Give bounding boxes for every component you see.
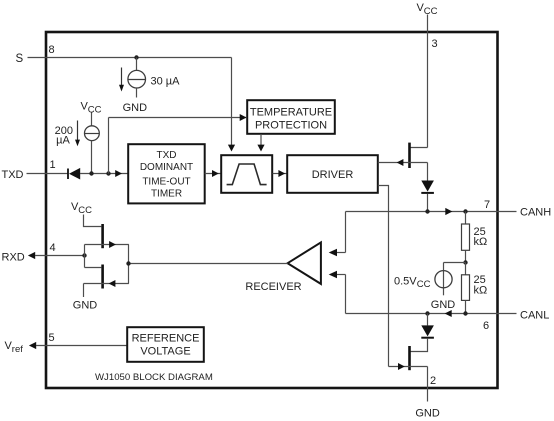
wire I2 to TXD net <box>91 141 93 174</box>
arrowhead on CANL line (pointing left) <box>445 310 452 317</box>
svg-text:CANL: CANL <box>520 309 549 321</box>
svg-text:CC: CC <box>78 205 92 216</box>
wire CANH to receiver riser <box>345 212 347 253</box>
resistor R2 25k <box>465 263 467 275</box>
svg-text:kΩ: kΩ <box>474 236 488 248</box>
wire CANL to receiver riser <box>345 275 347 314</box>
wire 30uA source stub top <box>136 58 138 71</box>
block slope control <box>221 155 272 193</box>
diode D2 (CANH) <box>421 181 434 192</box>
wire timer to slope block <box>205 173 221 175</box>
arrowhead on Q2 gate (pointing right) <box>398 363 405 370</box>
svg-text:DRIVER: DRIVER <box>312 169 354 181</box>
svg-text:PROTECTION: PROTECTION <box>255 120 327 132</box>
arrowhead into slope control block from S net <box>228 145 235 152</box>
wire receiver lower input <box>337 274 346 276</box>
arrowhead on Q4 (pointing left) <box>109 280 116 287</box>
arrowhead Vref (pointing left out of chip) <box>29 342 36 349</box>
svg-text:TXD: TXD <box>2 169 24 181</box>
transistor Q3 channel bar <box>101 224 104 248</box>
wire GND stub (RXD stage) <box>83 284 85 298</box>
node CANL/D3 <box>425 311 429 315</box>
arrowhead on Q1 gate (pointing left) <box>397 159 404 166</box>
svg-text:8: 8 <box>49 44 55 56</box>
node TXD/temp-net junction <box>106 171 110 175</box>
block driver <box>287 155 378 193</box>
arrowhead RXD (pointing left out of chip) <box>28 252 35 259</box>
wire diode to timer block <box>80 173 128 175</box>
arrowhead temp protection into slope block <box>257 145 264 152</box>
svg-text:0.5V: 0.5V <box>394 275 417 287</box>
svg-text:7: 7 <box>484 199 490 211</box>
wire Q3 gate line (crosses bar) <box>85 244 129 246</box>
arrowhead on Q3 (pointing right) <box>109 241 116 248</box>
svg-text:GND: GND <box>73 300 98 312</box>
svg-text:2: 2 <box>430 375 436 387</box>
svg-text:RECEIVER: RECEIVER <box>245 281 301 293</box>
current direction arrow for I1 <box>121 68 123 86</box>
wire VCC to I2 <box>91 113 93 127</box>
block reference voltage <box>127 327 204 362</box>
transistor Q4 channel bar <box>101 265 104 289</box>
svg-text:4: 4 <box>50 242 56 254</box>
diode D3 (CANL) <box>427 314 429 326</box>
resistor R1 25k <box>465 212 467 225</box>
wire CANL line <box>346 313 517 315</box>
wire RXD <box>35 255 85 257</box>
svg-text:CC: CC <box>417 279 431 290</box>
node CANH/R1 <box>463 209 467 213</box>
arrowhead into timer block <box>115 170 122 177</box>
arrowhead into slope block <box>212 170 219 177</box>
svg-text:RXD: RXD <box>2 251 25 263</box>
svg-text:CC: CC <box>424 6 438 17</box>
wire to temperature protection (horizontal) <box>109 117 247 119</box>
svg-text:CANH: CANH <box>520 206 551 218</box>
block temperature protection <box>247 100 335 134</box>
current source I2 200uA circle <box>85 126 100 141</box>
wire CANH line <box>346 211 517 213</box>
op-amp receiver triangle <box>288 242 321 284</box>
svg-text:6: 6 <box>483 320 489 332</box>
wire right vertical of RXD pair <box>128 245 130 284</box>
wire Q4 source line (crosses bar) <box>84 283 129 285</box>
transistor Q1 drain wire <box>411 147 428 149</box>
svg-text:GND: GND <box>431 299 456 311</box>
diode D1 (TXD input) <box>67 169 69 180</box>
current source I1 30uA circle <box>128 70 146 88</box>
node CANL/R2 <box>463 311 467 315</box>
wire mid node to 0.5VCC source <box>444 262 466 264</box>
wire S (pin 8) horizontal <box>28 57 232 59</box>
svg-text:5: 5 <box>49 332 55 344</box>
svg-text:GND: GND <box>123 102 148 114</box>
wire Q1 source down to diode <box>427 163 429 181</box>
wire TXD pin to diode <box>27 173 68 175</box>
wire D3 to Q2 drain <box>411 339 428 352</box>
node S/30uA junction <box>134 55 138 59</box>
wire receiver output <box>129 263 288 265</box>
wire driver to Q1 gate/source <box>378 162 428 164</box>
node RXD junction <box>82 253 86 257</box>
wire to temperature protection (vertical) <box>108 118 110 174</box>
node CANH/diode-chain <box>425 209 429 213</box>
svg-text:DOMINANT: DOMINANT <box>140 162 193 173</box>
svg-text:TIME-OUT: TIME-OUT <box>142 176 190 187</box>
wire slope block to driver <box>273 173 288 175</box>
arrowhead receiver lower input (pointing left) <box>329 271 337 279</box>
wire driver to Q2 gate (from driver bottom) <box>378 186 389 367</box>
svg-text:GND: GND <box>415 407 440 419</box>
wire VCC pin 3 vertical <box>427 15 429 148</box>
wire Vref to reference voltage block <box>36 345 127 347</box>
wire temp protection down to slope block <box>260 134 262 145</box>
svg-text:S: S <box>16 53 24 65</box>
wire 30uA source stub bottom <box>136 88 138 98</box>
svg-text:3: 3 <box>432 38 438 50</box>
wire VCC stub to Q3 <box>84 215 102 227</box>
svg-text:WJ1050 BLOCK DIAGRAM: WJ1050 BLOCK DIAGRAM <box>95 372 213 383</box>
svg-text:VOLTAGE: VOLTAGE <box>140 345 190 357</box>
voltage source 0.5VCC circle <box>435 271 452 288</box>
node receiver output / RXD pair <box>126 261 130 265</box>
svg-text:REFERENCE: REFERENCE <box>132 332 200 344</box>
arrowhead into driver <box>278 170 285 177</box>
node mid resistor divider <box>463 260 467 264</box>
node TXD/200uA junction <box>89 171 93 175</box>
wire D2 to CANH line <box>427 194 429 212</box>
transistor Q2 channel bar <box>408 346 411 370</box>
svg-text:30 µA: 30 µA <box>151 76 181 88</box>
svg-text:µA: µA <box>56 135 70 147</box>
svg-text:TEMPERATURE: TEMPERATURE <box>250 107 332 119</box>
transistor Q1 channel bar <box>408 143 411 168</box>
svg-text:CC: CC <box>88 105 102 116</box>
svg-text:kΩ: kΩ <box>474 285 488 297</box>
block TXD dominant time-out timer <box>128 144 205 203</box>
outer IC boundary box <box>46 32 498 388</box>
current direction arrow for I2 <box>77 121 79 141</box>
trapezoid waveform symbol <box>227 164 267 185</box>
wire receiver upper input <box>337 252 346 254</box>
arrowhead on CANH line (pointing right) <box>445 208 452 215</box>
arrowhead receiver upper input (pointing left) <box>329 249 337 257</box>
wire pin 2 to GND <box>427 367 429 402</box>
svg-text:ref: ref <box>12 344 23 355</box>
wire Q2 gate/source horizontal <box>389 366 428 368</box>
wire riser to Q4 drain <box>85 267 102 269</box>
svg-text:TXD: TXD <box>157 150 177 161</box>
svg-text:TIMER: TIMER <box>151 189 182 200</box>
svg-text:1: 1 <box>50 159 56 171</box>
wire S vertical to slope block <box>231 58 233 146</box>
arrowhead into temperature protection <box>240 114 247 121</box>
wire RXD riser <box>84 245 86 268</box>
